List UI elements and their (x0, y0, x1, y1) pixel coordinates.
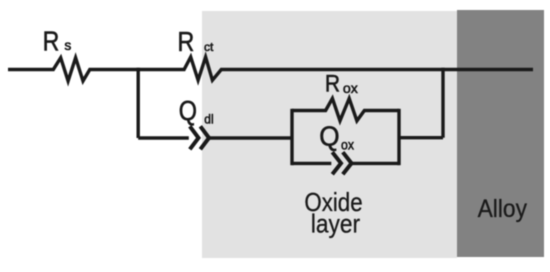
svg-text:Q: Q (179, 95, 197, 126)
wire: Qdl branch left segment (138, 136, 189, 139)
svg-text:R: R (178, 26, 195, 57)
wire: bottom branch left segment (292, 162, 331, 165)
wire: parallel box left edge (290, 109, 293, 165)
svg-text:s: s (64, 38, 71, 53)
capacitor-CPE Qox chevron 2 (343, 152, 352, 174)
wire: bottom branch right segment (352, 162, 399, 165)
wire: parallel box right edge (397, 109, 400, 165)
capacitor-CPE Qdl chevron 2 (200, 126, 209, 149)
svg-text:dl: dl (204, 112, 213, 126)
wire: top rail with resistor Rs and resistor Rct zigzags (8, 57, 533, 81)
capacitor-CPE Qdl chevron 1 (190, 126, 199, 149)
svg-text:Q: Q (319, 120, 339, 151)
svg-text:ox: ox (341, 137, 354, 152)
svg-text:ct: ct (204, 40, 214, 54)
alloy region (457, 10, 544, 257)
svg-text:R: R (43, 25, 60, 56)
svg-text:Alloy: Alloy (478, 195, 528, 223)
wire: junction vertical at node A (136, 68, 139, 138)
wire: box output stub and right vertical to top rail (399, 68, 443, 138)
svg-text:layer: layer (311, 208, 360, 238)
wire: Qdl branch right segment to box (210, 136, 294, 139)
resistor Rox top branch with zigzag (292, 98, 399, 120)
oxide layer region (202, 11, 457, 258)
svg-text:R: R (325, 71, 340, 98)
svg-text:ox: ox (343, 81, 358, 96)
capacitor-CPE Qox chevron 1 (332, 152, 341, 174)
